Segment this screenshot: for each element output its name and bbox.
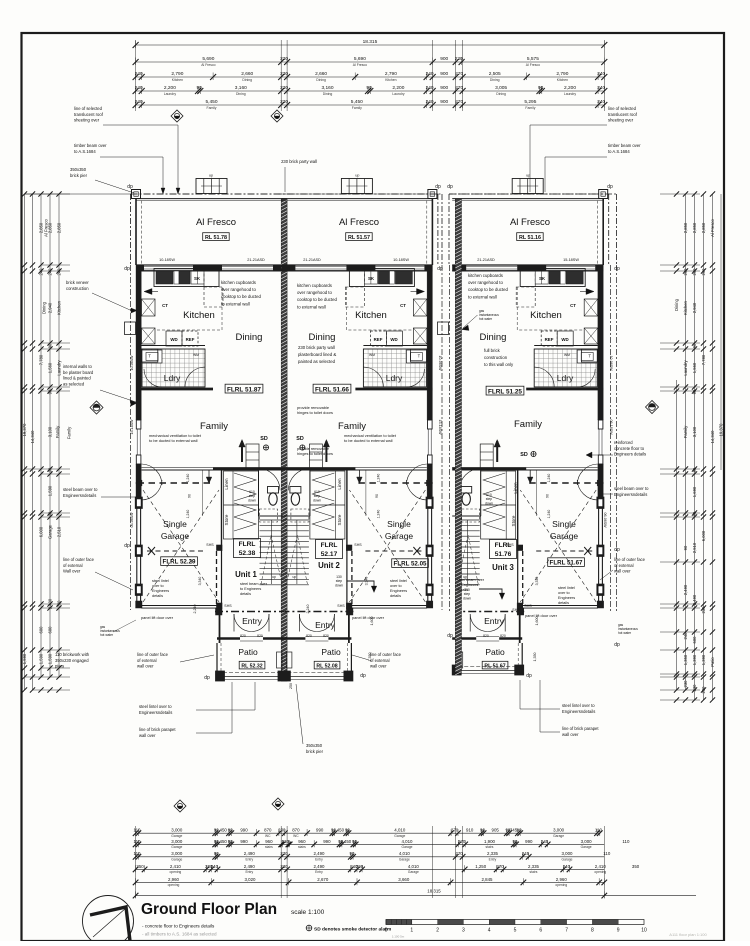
unit 3 entry beam over dashed: [455, 611, 524, 613]
svg-text:dp: dp: [204, 675, 210, 681]
unit 2 patio dashed inner: [346, 643, 348, 675]
unit 3 down arrow to beam: [529, 470, 531, 481]
smoke detector legend: [306, 925, 312, 931]
unit 1 sink: [191, 271, 204, 284]
svg-text:Family: Family: [200, 421, 228, 432]
unit 1 entry bottom wall: [217, 637, 240, 639]
svg-text:SHS: SHS: [512, 608, 520, 612]
unit 3 bench return dashed cupboard: [516, 287, 535, 307]
svg-text:hot water: hot water: [618, 631, 632, 635]
unit 2 brick pier at al fresco corner: [428, 190, 437, 199]
svg-text:600: 600: [692, 636, 697, 644]
svg-text:up: up: [355, 174, 359, 178]
svg-text:19,370: 19,370: [22, 423, 27, 436]
svg-text:21-21ASD: 21-21ASD: [247, 258, 265, 262]
svg-text:Wall over: Wall over: [63, 569, 81, 574]
unit 1 entry double door arcs: [234, 614, 252, 632]
unit 3 stairs treads: [455, 519, 480, 521]
svg-text:450: 450: [344, 839, 352, 844]
svg-text:steel lintel over to: steel lintel over to: [562, 703, 595, 708]
svg-text:450: 450: [220, 839, 228, 844]
unit 1 side wall appliances: [142, 299, 156, 316]
svg-text:3,340: 3,340: [198, 577, 202, 586]
svg-text:stairs: stairs: [530, 870, 538, 874]
svg-text:FLRL 51.87: FLRL 51.87: [227, 386, 261, 393]
unit 1 patio post by party wall: [277, 652, 283, 668]
unit 3 steel beam over dashed line: [529, 482, 602, 484]
svg-text:brick veneer: brick veneer: [66, 280, 89, 285]
svg-text:2,940: 2,940: [692, 302, 697, 313]
svg-text:construction: construction: [484, 355, 508, 360]
svg-text:600: 600: [39, 626, 44, 634]
svg-text:Laundry: Laundry: [564, 92, 577, 96]
svg-text:panel lift door over: panel lift door over: [141, 615, 174, 620]
svg-text:cooktop to be ducted: cooktop to be ducted: [468, 287, 509, 292]
svg-text:Al Fresco: Al Fresco: [201, 63, 215, 67]
svg-text:2,960: 2,960: [168, 877, 180, 882]
roof outline building A: [131, 193, 443, 195]
svg-text:Dining: Dining: [42, 301, 47, 314]
svg-text:600: 600: [48, 626, 53, 634]
unit 2 up arrow: [325, 441, 327, 462]
svg-text:06-06SW: 06-06SW: [130, 512, 134, 528]
svg-text:Family: Family: [683, 425, 688, 438]
unit 3 linen and store closets: [481, 471, 516, 539]
svg-text:1,600: 1,600: [535, 617, 539, 626]
svg-text:dp: dp: [360, 673, 366, 679]
svg-text:dp: dp: [124, 543, 130, 549]
svg-text:Al Fresco: Al Fresco: [710, 218, 715, 236]
svg-text:SD: SD: [260, 436, 268, 442]
svg-text:WC: WC: [265, 834, 271, 838]
svg-text:990: 990: [240, 839, 248, 844]
svg-text:to be ducted to external wall: to be ducted to external wall: [149, 438, 198, 443]
svg-text:cooktop to be ducted: cooktop to be ducted: [221, 294, 262, 299]
svg-text:2,200: 2,200: [164, 85, 176, 91]
svg-text:of external: of external: [370, 658, 390, 663]
svg-text:SHS: SHS: [506, 543, 514, 547]
unit 3 laundry door swing: [534, 367, 554, 387]
svg-text:3,340: 3,340: [535, 577, 539, 586]
svg-text:line of brick parapet: line of brick parapet: [139, 727, 176, 732]
unit 3 side wall lower 110 brickwork with piers: [601, 500, 603, 608]
svg-text:Entry: Entry: [489, 858, 497, 862]
svg-text:Family: Family: [55, 425, 60, 438]
unit 1 door swing from side wall: [142, 464, 162, 485]
svg-text:350x350: 350x350: [70, 167, 87, 172]
svg-text:960: 960: [298, 839, 306, 844]
svg-text:2,200: 2,200: [564, 85, 576, 91]
svg-text:up: up: [526, 174, 530, 178]
svg-text:Linen: Linen: [224, 478, 229, 490]
svg-text:Laundry: Laundry: [683, 360, 688, 376]
svg-text:Entry: Entry: [484, 616, 505, 626]
svg-text:18,315: 18,315: [427, 889, 441, 894]
svg-text:steel lintel: steel lintel: [390, 579, 407, 583]
unit 2 bench return dashed cupboard: [345, 287, 364, 307]
right dimension strip: [676, 380, 678, 690]
svg-text:of external: of external: [63, 563, 83, 568]
svg-text:3,160: 3,160: [321, 85, 333, 91]
svg-text:820: 820: [306, 634, 312, 638]
diamond markers bottom: [174, 800, 186, 812]
svg-text:2,845: 2,845: [482, 877, 494, 882]
svg-text:2,335: 2,335: [487, 851, 499, 856]
svg-text:over rangehood to: over rangehood to: [468, 280, 503, 285]
unit 3 brick pier at al fresco corner: [599, 190, 608, 199]
svg-text:2,240: 2,240: [193, 605, 197, 614]
svg-text:15-18SW: 15-18SW: [563, 258, 579, 262]
svg-text:1,240: 1,240: [186, 510, 190, 519]
svg-text:870: 870: [292, 828, 300, 833]
svg-text:translucent roof: translucent roof: [608, 112, 638, 117]
unit 3 WD and REF: [557, 331, 573, 346]
svg-text:steel lintel over to: steel lintel over to: [139, 704, 172, 709]
svg-text:down: down: [335, 583, 343, 587]
svg-text:Garage: Garage: [408, 870, 419, 874]
unit 1 wc toilet: [269, 493, 277, 505]
svg-text:1,240: 1,240: [376, 474, 380, 483]
svg-text:2: 2: [436, 928, 439, 934]
svg-text:cooktop to be ducted: cooktop to be ducted: [297, 297, 338, 302]
svg-text:steel beam over: steel beam over: [457, 578, 485, 582]
unit 1 side wall lower 110 brickwork with piers: [136, 500, 138, 608]
svg-text:Family: Family: [352, 106, 362, 110]
svg-text:Kitchen: Kitchen: [530, 310, 562, 321]
svg-text:Engineersndetails: Engineersndetails: [139, 710, 172, 715]
svg-text:up: up: [272, 575, 276, 579]
unit 2 patio: [350, 643, 352, 675]
svg-text:line of selected: line of selected: [608, 106, 637, 111]
unit 2 door swing from side wall: [406, 464, 426, 485]
svg-text:2,490: 2,490: [244, 864, 256, 869]
svg-text:06-18SW: 06-18SW: [609, 420, 613, 436]
svg-text:FLRL 52.29: FLRL 52.29: [163, 559, 196, 566]
svg-text:21-21ASD: 21-21ASD: [303, 258, 321, 262]
svg-text:CT: CT: [400, 303, 406, 308]
svg-text:dp: dp: [447, 633, 453, 639]
svg-text:Engineersndetails: Engineersndetails: [614, 492, 647, 497]
svg-text:WM: WM: [564, 353, 570, 357]
unit 2 external steps up to al fresco: [341, 179, 372, 194]
unit 3 al fresco slab edge: [452, 198, 603, 200]
unit 2 down arrow to beam: [358, 470, 360, 481]
svg-text:Unit 3: Unit 3: [492, 563, 514, 572]
unit 1 stairs treads: [260, 519, 285, 521]
svg-text:3,660: 3,660: [398, 877, 410, 882]
svg-text:Garage: Garage: [48, 524, 53, 539]
svg-text:Garage: Garage: [550, 531, 579, 541]
unit 1 shower dashed box: [260, 509, 278, 522]
svg-text:kitchen cupboards: kitchen cupboards: [468, 273, 503, 278]
svg-text:Dining: Dining: [236, 92, 246, 96]
svg-text:2,505: 2,505: [489, 71, 501, 77]
svg-text:down: down: [248, 498, 256, 502]
svg-text:Laundry: Laundry: [392, 92, 405, 96]
svg-text:10-06SW: 10-06SW: [130, 355, 134, 371]
svg-text:2,410: 2,410: [170, 864, 182, 869]
svg-text:Single: Single: [163, 519, 187, 529]
svg-text:REF: REF: [186, 337, 195, 342]
svg-text:hinges to toilet doors: hinges to toilet doors: [297, 410, 333, 415]
svg-text:3,100: 3,100: [692, 426, 697, 437]
svg-text:10-06SW: 10-06SW: [609, 356, 613, 372]
svg-text:WC: WC: [293, 834, 299, 838]
unit 2 stair core walls: [281, 467, 355, 469]
unit 3 al fresco roof dashed outline: [449, 193, 609, 195]
svg-text:FLRL: FLRL: [239, 541, 256, 548]
svg-text:dp: dp: [614, 266, 620, 272]
svg-text:up: up: [209, 174, 213, 178]
svg-text:3,000: 3,000: [581, 839, 593, 844]
svg-text:Family: Family: [338, 421, 366, 432]
svg-text:Engineersndetails: Engineersndetails: [562, 709, 595, 714]
svg-text:REF: REF: [545, 337, 554, 342]
svg-text:4,010: 4,010: [402, 839, 414, 844]
unit 1 wc door swing: [259, 468, 281, 490]
svg-text:Engineers: Engineers: [152, 589, 169, 593]
svg-text:Entry: Entry: [315, 858, 323, 862]
unit 2 side wall appliances: [413, 299, 427, 316]
svg-text:details: details: [240, 592, 251, 596]
svg-text:2,960: 2,960: [556, 877, 568, 882]
svg-text:Garage: Garage: [385, 531, 414, 541]
unit 3 stair core walls: [452, 467, 526, 469]
unit 1 al fresco roof dashed outline: [131, 193, 291, 195]
svg-text:dp: dp: [437, 266, 443, 272]
unit 1 steel beam over dashed line: [138, 482, 211, 484]
svg-text:Kitchen: Kitchen: [57, 300, 62, 315]
svg-text:Patio: Patio: [710, 657, 715, 667]
unit 2 laundry bottom wall: [355, 388, 432, 391]
svg-text:Dining: Dining: [480, 332, 507, 343]
svg-text:SK: SK: [539, 276, 546, 281]
svg-text:brick pier: brick pier: [70, 173, 88, 178]
svg-text:concrete floor to: concrete floor to: [614, 446, 645, 451]
svg-text:Garage: Garage: [562, 858, 573, 862]
unit 2 garage dashed level line: [365, 550, 421, 552]
unit 1 front (north) wall: [136, 264, 287, 266]
unit 3 shower dashed box: [462, 509, 480, 522]
svg-text:Al Fresco: Al Fresco: [196, 217, 236, 228]
svg-text:details: details: [558, 601, 569, 605]
bottom extension verticals: [135, 826, 137, 898]
svg-text:6,000: 6,000: [701, 530, 706, 541]
unit 3 sink: [535, 271, 548, 284]
svg-text:panel lift door over: panel lift door over: [525, 613, 558, 618]
unit 2 laundry door swing: [363, 367, 383, 387]
svg-text:6,000: 6,000: [39, 526, 44, 537]
svg-text:3,000: 3,000: [171, 851, 183, 856]
svg-text:SK: SK: [194, 276, 201, 281]
svg-text:110: 110: [622, 839, 630, 844]
svg-text:450: 450: [337, 828, 345, 833]
unit 3 laundry trough: [577, 350, 597, 363]
svg-text:CT: CT: [162, 303, 168, 308]
svg-text:Dining: Dining: [490, 78, 500, 82]
unit 2 sink: [364, 271, 377, 284]
svg-text:T: T: [148, 354, 151, 359]
svg-text:7,780: 7,780: [39, 354, 44, 365]
svg-text:Engineers: Engineers: [558, 596, 575, 600]
svg-text:dp: dp: [124, 266, 130, 272]
svg-text:Engineers: Engineers: [390, 589, 407, 593]
unit 1 family-south double line: [142, 467, 287, 469]
svg-text:90: 90: [188, 494, 192, 498]
unit 1 garage cross diagonals: [143, 490, 219, 602]
svg-text:details: details: [152, 594, 163, 598]
svg-text:820: 820: [500, 634, 506, 638]
svg-text:Single: Single: [387, 519, 411, 529]
svg-text:5,575: 5,575: [527, 56, 539, 62]
unit 1 linen and store closets: [224, 471, 259, 539]
svg-text:T: T: [418, 354, 421, 359]
svg-text:3,000: 3,000: [171, 839, 183, 844]
unit 2 SHS posts: [346, 603, 352, 609]
svg-text:FLRL 52.05: FLRL 52.05: [394, 561, 427, 568]
unit 1 landing steps: [246, 444, 259, 468]
svg-text:hinges to toilet doors: hinges to toilet doors: [297, 451, 333, 456]
unit 2 side wall lower 110 brickwork with piers: [431, 500, 433, 608]
svg-text:900: 900: [440, 56, 448, 62]
svg-text:06-06SW: 06-06SW: [603, 513, 607, 529]
svg-text:Entry: Entry: [245, 870, 253, 874]
svg-text:960: 960: [265, 839, 273, 844]
svg-text:2,660: 2,660: [241, 71, 253, 77]
svg-text:5,690: 5,690: [354, 56, 366, 62]
svg-text:Garage: Garage: [171, 858, 182, 862]
svg-text:1,240: 1,240: [186, 474, 190, 483]
unit 2 laundry trough: [406, 350, 426, 363]
svg-text:up: up: [293, 575, 297, 579]
unit 3 full brick west wall: [455, 199, 461, 672]
svg-text:- all timbers to A.S. 1684 as: - all timbers to A.S. 1684 as selected: [142, 932, 217, 937]
svg-text:2,490: 2,490: [683, 584, 688, 595]
unit 2 linen and store closets: [310, 471, 345, 539]
svg-text:Dining: Dining: [242, 78, 252, 82]
svg-text:990: 990: [525, 839, 533, 844]
svg-text:4: 4: [488, 928, 491, 934]
svg-text:1,350: 1,350: [533, 653, 537, 662]
svg-text:990: 990: [240, 828, 248, 833]
svg-text:sheeting over: sheeting over: [608, 118, 634, 123]
svg-text:dp: dp: [607, 184, 613, 190]
unit 2 al fresco roof dashed outline: [278, 193, 438, 195]
svg-text:Linen: Linen: [513, 482, 518, 494]
unit 1 laundry tiled floor: [142, 349, 205, 387]
svg-text:19,370: 19,370: [719, 423, 724, 436]
svg-text:Al Fresco: Al Fresco: [526, 63, 540, 67]
svg-text:to external wall: to external wall: [297, 304, 326, 309]
unit 3 patio dashed inner: [517, 643, 519, 669]
svg-text:wall over: wall over: [614, 569, 631, 574]
svg-text:WM: WM: [369, 353, 375, 357]
cooktop duct arrows: [144, 289, 152, 295]
svg-text:kitchen cupboards: kitchen cupboards: [221, 280, 256, 285]
svg-text:Store: Store: [511, 515, 516, 526]
svg-text:over to: over to: [152, 584, 164, 588]
svg-text:T: T: [588, 354, 591, 359]
unit 1 side external wall upper: [136, 265, 141, 500]
svg-text:905: 905: [492, 828, 500, 833]
svg-text:52.17: 52.17: [321, 551, 338, 558]
svg-text:250: 250: [289, 683, 293, 689]
svg-text:820: 820: [240, 634, 246, 638]
svg-text:dp: dp: [435, 184, 441, 190]
svg-text:Entry: Entry: [242, 616, 263, 626]
unit 1 external steps up to al fresco: [196, 179, 227, 194]
unit 2 patio piers: [344, 671, 353, 681]
svg-text:2,490: 2,490: [244, 851, 256, 856]
svg-text:Garage: Garage: [581, 845, 592, 849]
svg-text:Ldry: Ldry: [386, 373, 403, 383]
svg-text:as selected: as selected: [63, 381, 85, 386]
svg-text:14,340: 14,340: [710, 430, 715, 443]
svg-text:opening: opening: [594, 870, 606, 874]
svg-text:full brick: full brick: [484, 348, 501, 353]
svg-text:900: 900: [440, 71, 448, 77]
svg-text:820: 820: [483, 634, 489, 638]
svg-text:Family: Family: [207, 106, 217, 110]
unit 3 smoke detector: [531, 451, 536, 456]
unit 2 patio post by party wall: [286, 652, 292, 668]
svg-text:240: 240: [683, 632, 688, 640]
svg-text:dp: dp: [447, 184, 453, 190]
svg-text:Dining: Dining: [674, 298, 679, 311]
svg-text:to Engineers: to Engineers: [240, 587, 261, 591]
svg-text:450: 450: [220, 828, 228, 833]
unit 1 garage door panel lift: [141, 605, 217, 607]
svg-text:Patio: Patio: [238, 647, 258, 657]
svg-text:FLRL: FLRL: [321, 542, 338, 549]
svg-text:to A.S.1684: to A.S.1684: [74, 149, 96, 154]
svg-text:line of selected: line of selected: [74, 106, 103, 111]
svg-text:1,560: 1,560: [48, 362, 53, 373]
unit 1 kitchen bench: [154, 269, 219, 287]
svg-text:WD: WD: [170, 337, 177, 342]
svg-text:line of outer face: line of outer face: [63, 557, 95, 562]
svg-text:Kitchen: Kitchen: [385, 78, 396, 82]
svg-text:870: 870: [264, 828, 272, 833]
svg-text:Store: Store: [224, 514, 229, 525]
svg-text:2,200: 2,200: [392, 85, 404, 91]
unit 3 laundry tiled floor: [534, 349, 597, 387]
unit 3 wc door swing: [459, 468, 481, 490]
unit 3 laundry bottom wall: [526, 388, 603, 391]
unit 2 front (north) wall: [281, 264, 432, 266]
svg-text:3,000: 3,000: [562, 851, 574, 856]
svg-text:SD denotes smoke detector alar: SD denotes smoke detector alarm: [314, 927, 391, 933]
svg-text:5,450: 5,450: [351, 99, 363, 105]
unit 3 kitchen bench: [520, 269, 585, 287]
unit 2 family-south double line: [281, 467, 426, 469]
svg-text:SHS: SHS: [354, 543, 362, 547]
svg-text:panel lift door over: panel lift door over: [352, 615, 385, 620]
svg-text:Patio: Patio: [321, 647, 341, 657]
unit 3 garage door panel lift: [522, 605, 598, 607]
svg-text:2,510: 2,510: [692, 542, 697, 553]
svg-text:wall over: wall over: [370, 664, 387, 669]
svg-text:kitchen cupboards: kitchen cupboards: [297, 283, 332, 288]
svg-text:WD: WD: [390, 337, 397, 342]
svg-text:Entry: Entry: [315, 620, 336, 630]
svg-text:0: 0: [385, 928, 388, 934]
svg-text:plasterboard lined &: plasterboard lined &: [298, 352, 336, 357]
compass marker right: [646, 401, 659, 414]
svg-text:2,510: 2,510: [57, 526, 62, 537]
svg-text:stairs: stairs: [486, 845, 494, 849]
svg-text:1: 1: [410, 928, 413, 934]
